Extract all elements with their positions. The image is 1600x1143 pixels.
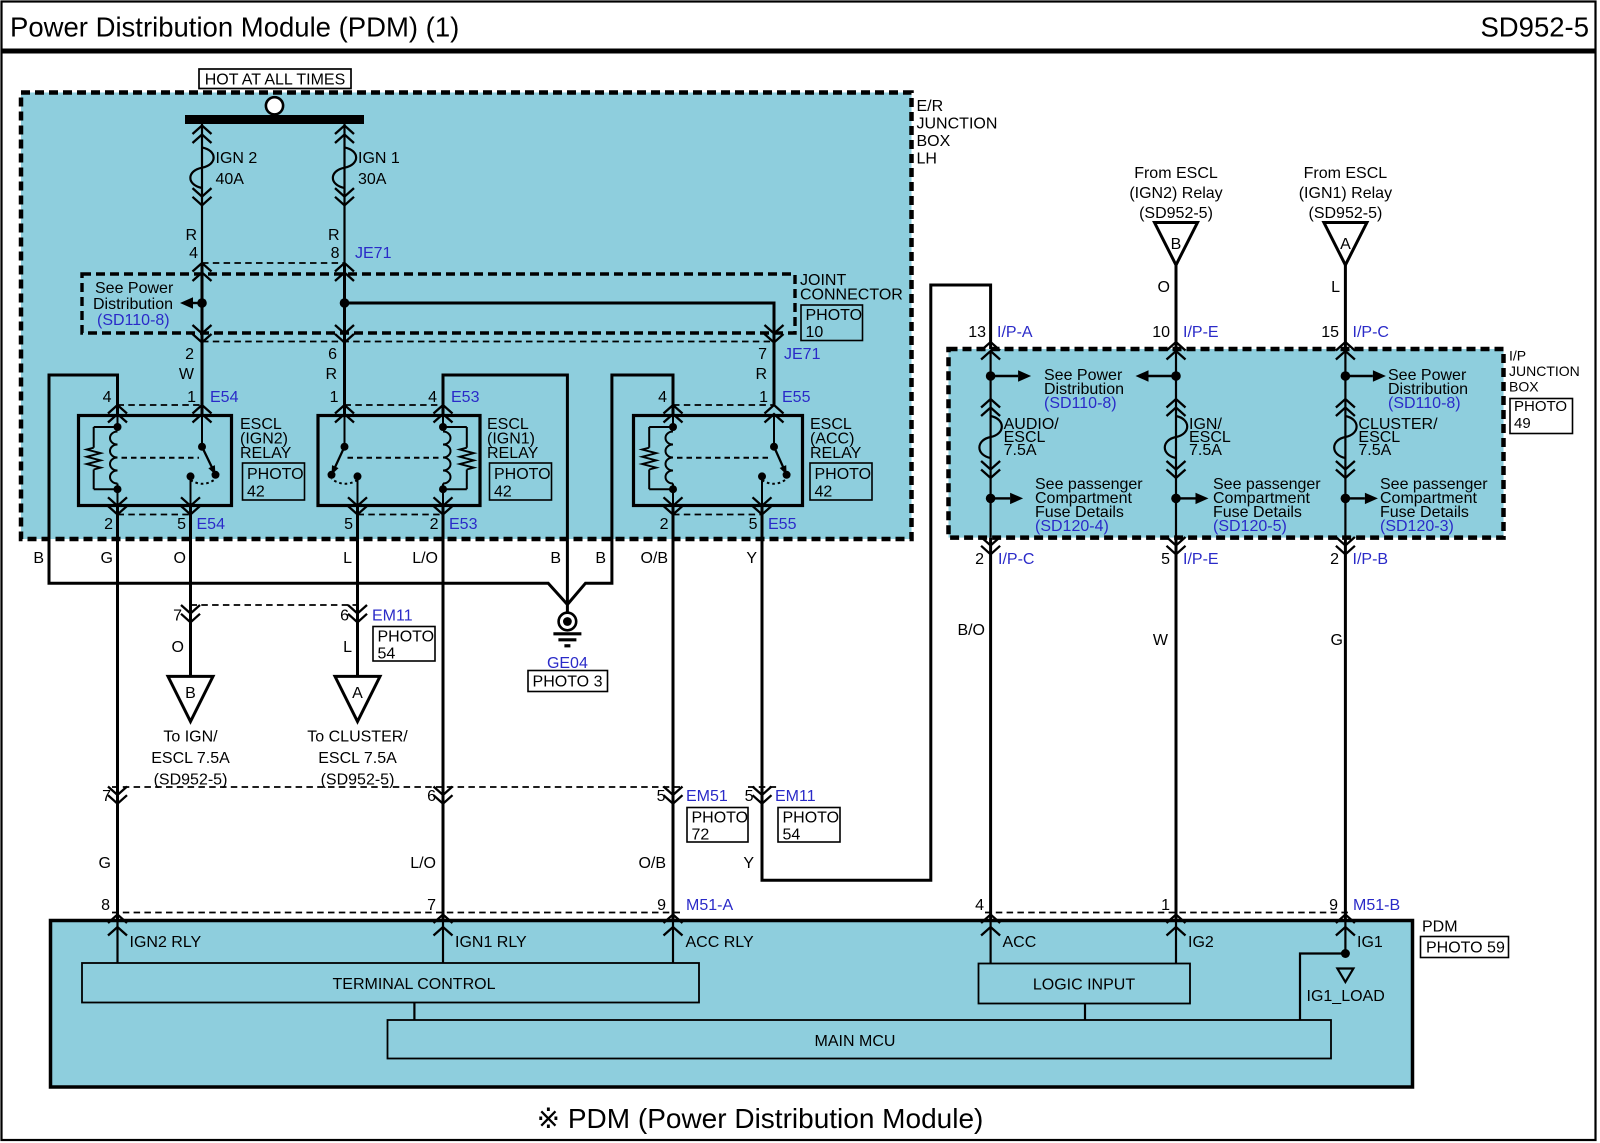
svg-text:6: 6 [427, 788, 436, 805]
svg-text:M51-A: M51-A [686, 897, 733, 914]
PHOTO 3 box [528, 671, 608, 692]
svg-text:9: 9 [657, 897, 666, 914]
svg-text:4: 4 [428, 389, 437, 406]
svg-text:BOX: BOX [917, 133, 951, 150]
E54 ESCL(IGN2) bottom pin 2 [104, 497, 127, 533]
I/P-E pin 10 [1152, 324, 1218, 360]
svg-text:7.5A: 7.5A [1189, 442, 1222, 459]
connector E53 ESCL(IGN1) upper line [345, 404, 444, 406]
joint connector JE71 lower line [202, 341, 774, 343]
svg-text:I/P-C: I/P-C [1353, 324, 1389, 341]
svg-text:5: 5 [177, 516, 186, 533]
arrow to See Power Distribution [1149, 375, 1173, 377]
svg-text:42: 42 [815, 484, 833, 501]
svg-text:6: 6 [328, 346, 337, 363]
svg-text:B: B [1171, 236, 1182, 253]
svg-text:(SD120-5): (SD120-5) [1213, 518, 1287, 535]
PDM pin label IGN2 RLY + wire stub [118, 922, 202, 963]
svg-text:ACC: ACC [1003, 934, 1037, 951]
svg-text:L: L [343, 550, 352, 567]
svg-text:I/P-E: I/P-E [1183, 551, 1219, 568]
svg-text:O: O [172, 639, 184, 656]
svg-text:JUNCTION: JUNCTION [917, 116, 998, 133]
svg-text:4: 4 [189, 245, 198, 262]
PHOTO 42 box of E53 ESCL(IGN1) [490, 463, 552, 501]
connector triangle B (from ESCL IGN2 relay) [1155, 223, 1198, 266]
svg-text:7: 7 [102, 788, 111, 805]
svg-text:SD952-5: SD952-5 [1480, 12, 1589, 43]
connector EM11 short line [748, 786, 778, 788]
svg-text:ESCL 7.5A: ESCL 7.5A [151, 750, 230, 767]
JE71 pin 7 [755, 325, 820, 383]
connector M51-B line [985, 912, 1352, 914]
fuse IGN 1 30A [333, 124, 400, 263]
svg-text:O: O [174, 550, 186, 567]
svg-text:42: 42 [247, 484, 265, 501]
svg-text:7: 7 [758, 346, 767, 363]
wire B/O I/P-C to PDM [989, 538, 992, 921]
svg-text:ACC RLY: ACC RLY [686, 934, 754, 951]
See passenger Compartment Fuse Details text ((SD120-4)) [1035, 476, 1143, 535]
svg-text:R: R [185, 227, 197, 244]
JOINT CONNECTOR label [800, 272, 903, 304]
wire B from E55 pin 4 to ground [567, 375, 673, 605]
arrow to See Power Distribution [1349, 375, 1373, 377]
From ESCL (IGN2) Relay text [1129, 165, 1222, 222]
svg-text:9: 9 [1329, 897, 1338, 914]
joint connector JE71 upper line [202, 262, 345, 264]
svg-text:15: 15 [1321, 324, 1339, 341]
svg-text:LH: LH [917, 151, 937, 168]
svg-text:E54: E54 [210, 389, 239, 406]
wire TERMINAL CONTROL to MAIN MCU [413, 1003, 415, 1021]
To IGN/ESCL text [151, 729, 230, 789]
connector E53 ESCL(IGN1) lower line [358, 514, 444, 516]
svg-text:49: 49 [1514, 415, 1531, 432]
wire O/B E55 pin2 down to PDM [672, 506, 675, 921]
M51-A pin 9 [657, 897, 733, 936]
svg-text:2: 2 [975, 551, 984, 568]
svg-text:EM11: EM11 [372, 608, 413, 625]
svg-text:E55: E55 [768, 516, 797, 533]
svg-text:54: 54 [783, 827, 801, 844]
svg-text:Distribution: Distribution [93, 296, 173, 313]
svg-text:7: 7 [173, 608, 182, 625]
wire W I/P-E to PDM [1175, 538, 1178, 921]
svg-text:L/O: L/O [412, 550, 438, 567]
svg-text:W: W [1153, 632, 1169, 649]
I/P-B pin 2 (bottom) [1330, 537, 1388, 568]
M51-A pin 8 [101, 897, 127, 936]
svg-text:2: 2 [1330, 551, 1339, 568]
fuse IGN 2 40A [190, 124, 257, 263]
M51-B pin 9 [1329, 897, 1400, 936]
I/P-A pin 13 [968, 324, 1033, 360]
PHOTO 54 box (EM11) [373, 627, 435, 663]
svg-text:IG2: IG2 [1188, 934, 1214, 951]
svg-text:6: 6 [340, 608, 349, 625]
See passenger Compartment Fuse Details text ((SD120-5)) [1213, 476, 1321, 535]
wire inside I/P box at x=1345.4 [1344, 351, 1346, 538]
PDM pin label IG1 + wire stub [1345, 922, 1382, 954]
svg-text:CONNECTOR: CONNECTOR [800, 287, 903, 304]
svg-text:8: 8 [101, 897, 110, 914]
wire R fuse IGN1 to JE71 pin 8 label [328, 227, 392, 262]
I/P-C pin 2 (bottom) [975, 537, 1034, 568]
connector E54 ESCL(IGN2) lower line [118, 514, 191, 516]
svg-text:RELAY: RELAY [487, 445, 539, 462]
See Power Distribution text (right) [1388, 367, 1468, 412]
junction node fuse details tap [986, 494, 996, 504]
PHOTO 72 box [687, 808, 748, 844]
svg-text:O: O [1158, 279, 1170, 296]
wire B from E53 pin 4 to ground [443, 375, 567, 605]
wire L triangle A to I/P-C pin 15 [1344, 265, 1347, 351]
fuse IGN/ 7.5A [1165, 399, 1231, 478]
E55 ESCL(ACC) top pin 1 [759, 389, 810, 423]
svg-text:PHOTO: PHOTO [378, 629, 435, 646]
wire inside I/P box at x=1176 [1175, 351, 1177, 538]
svg-text:E55: E55 [782, 389, 811, 406]
PDM pin label ACC RLY + wire stub [673, 922, 754, 963]
svg-text:2: 2 [430, 516, 439, 533]
svg-text:B: B [185, 685, 196, 702]
svg-text:IG1: IG1 [1357, 934, 1383, 951]
svg-text:※ PDM (Power Distribution Modu: ※ PDM (Power Distribution Module) [537, 1103, 984, 1134]
svg-text:PHOTO 3: PHOTO 3 [533, 674, 603, 691]
svg-text:RELAY: RELAY [240, 445, 292, 462]
arrow to See passenger Compartment Fuse Details [1349, 497, 1365, 499]
E53 ESCL(IGN1) bottom pin 5 [344, 497, 367, 533]
svg-text:MAIN MCU: MAIN MCU [815, 1033, 896, 1050]
PHOTO 59 box [1421, 937, 1509, 958]
svg-text:30A: 30A [358, 171, 387, 188]
svg-text:HOT AT ALL TIMES: HOT AT ALL TIMES [205, 72, 346, 89]
svg-text:From ESCL: From ESCL [1134, 165, 1218, 182]
svg-text:Power Distribution Module (PDM: Power Distribution Module (PDM) (1) [10, 12, 459, 43]
To CLUSTER/ESCL text [307, 729, 408, 789]
svg-text:5: 5 [745, 788, 754, 805]
svg-text:1: 1 [1161, 897, 1170, 914]
svg-text:PHOTO: PHOTO [783, 810, 840, 827]
EM51 pin 5 [657, 787, 728, 806]
wire LOGIC INPUT to MAIN MCU [1084, 1004, 1086, 1021]
svg-text:JUNCTION: JUNCTION [1509, 363, 1580, 379]
svg-text:2: 2 [185, 346, 194, 363]
svg-text:54: 54 [378, 646, 396, 663]
connector E55 ESCL(ACC) upper line [673, 404, 774, 406]
connector triangle A (from ESCL IGN1 relay) [1324, 223, 1367, 266]
svg-text:10: 10 [1152, 324, 1170, 341]
svg-text:(SD110-8): (SD110-8) [1044, 395, 1117, 412]
svg-text:I/P: I/P [1509, 348, 1526, 364]
svg-text:G: G [1331, 632, 1343, 649]
wire B from E54 pin 4 (up-left-down) [49, 375, 567, 605]
JE71 pin 8 [335, 263, 354, 281]
arrow to See Power Distribution [995, 375, 1019, 377]
svg-text:2: 2 [104, 516, 113, 533]
svg-text:I/P-A: I/P-A [997, 324, 1033, 341]
svg-text:5: 5 [749, 516, 758, 533]
connector EM11 line [191, 604, 358, 606]
svg-text:To CLUSTER/: To CLUSTER/ [307, 729, 408, 746]
svg-text:A: A [1340, 236, 1351, 253]
svg-text:(SD952-5): (SD952-5) [154, 772, 228, 789]
svg-text:(SD110-8): (SD110-8) [1388, 395, 1461, 412]
JE71 pin 4 [193, 263, 212, 281]
svg-text:PHOTO: PHOTO [806, 307, 863, 324]
svg-text:To IGN/: To IGN/ [163, 729, 218, 746]
wire G I/P-B to PDM [1344, 538, 1347, 921]
connector EM51 line [112, 786, 680, 788]
svg-text:PHOTO: PHOTO [494, 466, 551, 483]
I/P-E pin 5 (bottom) [1161, 537, 1218, 568]
svg-text:Y: Y [743, 855, 754, 872]
svg-text:EM11: EM11 [775, 788, 816, 805]
relay E54 ESCL(IGN2) [79, 416, 292, 506]
svg-text:(SD120-3): (SD120-3) [1380, 518, 1454, 535]
See Power Distribution dashed box [82, 274, 795, 333]
E/R junction box (cyan dashed) [21, 93, 912, 540]
connector E54 ESCL(IGN2) upper line [118, 404, 203, 406]
EM11 pin 5 [745, 787, 816, 806]
M51-B pin 4 [975, 897, 1000, 936]
svg-text:7: 7 [427, 897, 436, 914]
PHOTO 49 box [1510, 398, 1573, 434]
ground GE04 [553, 605, 581, 646]
svg-text:IGN2 RLY: IGN2 RLY [130, 934, 202, 951]
svg-text:A: A [352, 685, 363, 702]
svg-text:IG1_LOAD: IG1_LOAD [1307, 988, 1385, 1005]
PHOTO 10 box [801, 305, 863, 341]
svg-text:1: 1 [330, 389, 339, 406]
svg-text:1: 1 [759, 389, 768, 406]
svg-text:W: W [179, 366, 195, 383]
svg-text:L/O: L/O [410, 855, 436, 872]
svg-text:1: 1 [187, 389, 196, 406]
arrow to See passenger Compartment Fuse Details [995, 497, 1011, 499]
svg-text:2: 2 [660, 516, 669, 533]
E54 ESCL(IGN2) top pin 4 [103, 389, 127, 423]
relay E55 ESCL(ACC) [634, 416, 862, 506]
svg-text:(SD952-5): (SD952-5) [1308, 205, 1382, 222]
svg-text:5: 5 [1161, 551, 1170, 568]
svg-text:E54: E54 [197, 516, 226, 533]
relay E53 ESCL(IGN1) [318, 416, 539, 506]
svg-text:(IGN1) Relay: (IGN1) Relay [1299, 185, 1392, 202]
E55 ESCL(ACC) top pin 4 [658, 389, 682, 423]
svg-text:See Power: See Power [95, 280, 174, 297]
svg-text:13: 13 [968, 324, 986, 341]
EM11 pin 7 [173, 605, 200, 625]
arrow to See Power Distribution [193, 302, 202, 304]
wire O E54 pin5 down to triangle B [189, 506, 192, 677]
svg-text:10: 10 [806, 324, 824, 341]
wire L E53 pin5 down to triangle A [356, 506, 359, 677]
svg-text:IGN1 RLY: IGN1 RLY [455, 934, 527, 951]
wire G E54 pin2 down to PDM [116, 506, 119, 921]
svg-text:B/O: B/O [957, 622, 985, 639]
svg-text:O/B: O/B [640, 550, 668, 567]
svg-text:72: 72 [692, 827, 710, 844]
svg-text:Y: Y [746, 550, 757, 567]
svg-text:PHOTO: PHOTO [692, 810, 749, 827]
svg-text:G: G [101, 550, 113, 567]
junction node fuse details tap [1341, 494, 1351, 504]
node IG1 junction [1341, 949, 1350, 958]
wire R fuse IGN2 to JE71 pin 4 label [185, 227, 198, 262]
connector E55 ESCL(ACC) lower line [673, 514, 762, 516]
svg-text:JE71: JE71 [784, 346, 821, 363]
See Power Distribution text [93, 280, 174, 329]
svg-text:TERMINAL CONTROL: TERMINAL CONTROL [333, 976, 496, 993]
svg-text:B: B [33, 550, 44, 567]
PDM module box [51, 921, 1413, 1088]
svg-text:IGN 1: IGN 1 [358, 150, 400, 167]
From ESCL (IGN1) Relay text [1299, 165, 1392, 222]
I/P-C pin 15 [1321, 324, 1389, 360]
PHOTO 42 box of E54 ESCL(IGN2) [243, 463, 305, 501]
EM51 pin 7 [102, 787, 127, 806]
PHOTO 42 box of E55 ESCL(ACC) [810, 463, 872, 501]
svg-text:PDM: PDM [1422, 919, 1458, 936]
svg-text:B: B [550, 550, 561, 567]
bus bar terminal circle [266, 97, 283, 114]
svg-text:PHOTO 59: PHOTO 59 [1426, 940, 1505, 957]
M51-B pin 1 [1161, 897, 1185, 936]
node on wire R at E55 branch [340, 263, 350, 342]
svg-text:(SD952-5): (SD952-5) [321, 772, 395, 789]
svg-text:7.5A: 7.5A [1358, 442, 1391, 459]
wire Y E55 pin5 to I/P junction box [762, 285, 991, 880]
svg-text:R: R [328, 227, 340, 244]
power bus bar [185, 115, 364, 124]
svg-text:BOX: BOX [1509, 379, 1539, 395]
connector triangle B (to IGN/ESCL fuse) [168, 676, 213, 721]
See passenger Compartment Fuse Details text ((SD120-3)) [1380, 476, 1488, 535]
svg-text:4: 4 [658, 389, 667, 406]
wire W JE71 pin2 to relay E54 pin 1 [201, 342, 204, 416]
svg-text:GE04: GE04 [547, 655, 588, 672]
wire L/O E53 pin2 down to PDM [442, 506, 445, 921]
E54 ESCL(IGN2) top pin 1 [187, 389, 238, 423]
TERMINAL CONTROL block [82, 963, 699, 1003]
svg-text:I/P-C: I/P-C [998, 551, 1034, 568]
fuse AUDIO/ 7.5A [979, 399, 1059, 478]
svg-text:O/B: O/B [638, 855, 666, 872]
E54 ESCL(IGN2) bottom pin 5 [177, 497, 225, 533]
svg-text:From ESCL: From ESCL [1304, 165, 1388, 182]
wire R JE71 pin6 to relay E53 pin 1 [343, 342, 346, 416]
svg-text:PHOTO: PHOTO [815, 466, 872, 483]
LOGIC INPUT block [979, 964, 1191, 1004]
svg-text:(IGN2) Relay: (IGN2) Relay [1129, 185, 1222, 202]
svg-text:IGN 2: IGN 2 [216, 150, 258, 167]
connector M51-A line [112, 912, 680, 914]
wire O triangle B to I/P-E pin 10 [1175, 265, 1178, 351]
svg-text:42: 42 [494, 484, 512, 501]
svg-text:PHOTO: PHOTO [247, 466, 304, 483]
E/R junction box label [917, 98, 998, 168]
svg-text:B: B [595, 550, 606, 567]
wire inside I/P box at x=990.6 [989, 351, 991, 538]
See Power Distribution text (middle) [1044, 367, 1124, 412]
svg-text:40A: 40A [216, 171, 245, 188]
svg-text:I/P-E: I/P-E [1183, 324, 1219, 341]
I/P junction box (cyan dashed) [949, 349, 1504, 538]
svg-text:E53: E53 [451, 389, 480, 406]
svg-text:8: 8 [331, 245, 340, 262]
MAIN MCU block [388, 1020, 1332, 1059]
JE71 pin 6 [325, 325, 354, 383]
svg-text:L: L [1331, 279, 1340, 296]
svg-text:7.5A: 7.5A [1004, 442, 1037, 459]
title separator line [1, 49, 1597, 54]
svg-text:JE71: JE71 [355, 245, 392, 262]
svg-text:PHOTO: PHOTO [1514, 398, 1567, 415]
E53 ESCL(IGN1) top pin 1 [330, 389, 354, 423]
PHOTO 54 box (lower) [778, 808, 840, 844]
IG1_LOAD terminal triangle [1307, 969, 1385, 1006]
svg-text:RELAY: RELAY [810, 445, 862, 462]
svg-text:(SD952-5): (SD952-5) [1139, 205, 1213, 222]
HOT AT ALL TIMES label box [199, 69, 351, 89]
connector triangle A (to CLUSTER/ESCL fuse) [335, 676, 380, 721]
arrow to See passenger Compartment Fuse Details [1180, 497, 1196, 499]
M51-A pin 7 [427, 897, 452, 936]
svg-text:LOGIC INPUT: LOGIC INPUT [1033, 977, 1135, 994]
fuse CLUSTER/ 7.5A [1334, 399, 1438, 478]
PDM pin label ACC + wire stub [991, 922, 1037, 964]
wire R branch to JE71 pin 7 [345, 303, 775, 405]
junction node SD110-8 tap [1171, 371, 1181, 381]
PDM pin label IGN1 RLY + wire stub [443, 922, 527, 963]
svg-text:5: 5 [657, 788, 666, 805]
svg-text:I/P-B: I/P-B [1353, 551, 1389, 568]
svg-text:R: R [325, 366, 337, 383]
svg-text:EM51: EM51 [686, 788, 728, 805]
I/P junction box label [1509, 348, 1580, 395]
wire IG1 to MAIN MCU [1300, 954, 1345, 1021]
svg-text:E/R: E/R [917, 98, 944, 115]
svg-text:ESCL 7.5A: ESCL 7.5A [318, 750, 397, 767]
junction node SD110-8 tap [986, 371, 996, 381]
svg-text:M51-B: M51-B [1353, 897, 1400, 914]
svg-text:(SD110-8): (SD110-8) [97, 312, 170, 329]
EM11 pin 6 [340, 605, 413, 625]
node on wire W at SD110-8 tap [197, 263, 207, 342]
JE71 pin 2 [179, 325, 212, 383]
junction node fuse details tap [1171, 494, 1181, 504]
svg-text:E53: E53 [449, 516, 478, 533]
E55 ESCL(ACC) bottom pin 5 [749, 497, 797, 533]
junction node SD110-8 tap [1341, 371, 1351, 381]
svg-text:(SD120-4): (SD120-4) [1035, 518, 1109, 535]
svg-text:4: 4 [103, 389, 112, 406]
svg-text:L: L [343, 639, 352, 656]
svg-text:G: G [99, 855, 111, 872]
svg-text:4: 4 [975, 897, 984, 914]
E53 ESCL(IGN1) bottom pin 2 [430, 497, 478, 533]
svg-text:R: R [755, 366, 767, 383]
svg-text:5: 5 [344, 516, 353, 533]
E53 ESCL(IGN1) top pin 4 [428, 389, 479, 423]
EM51 pin 6 [427, 787, 452, 806]
PDM pin label IG2 + wire stub [1176, 922, 1214, 964]
E55 ESCL(ACC) bottom pin 2 [660, 497, 683, 533]
